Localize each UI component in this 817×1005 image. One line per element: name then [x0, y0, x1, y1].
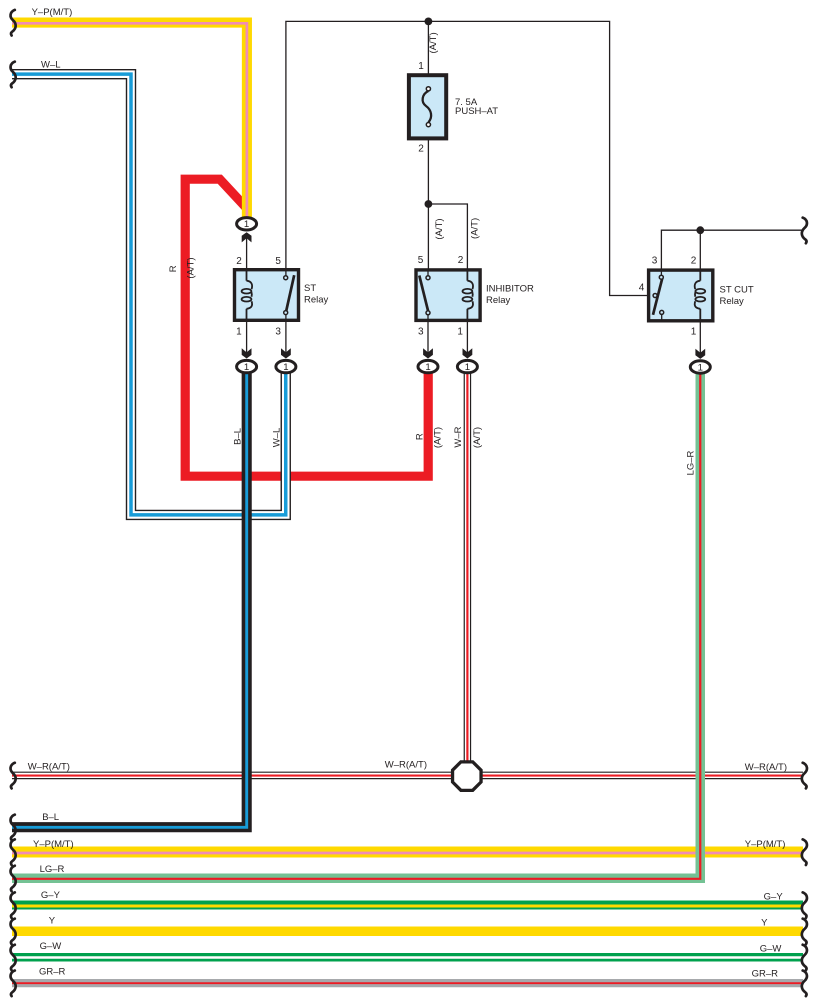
wire: branch to inhibitor pin2: [428, 204, 467, 282]
svg-text:2: 2: [236, 256, 242, 267]
break symbol GR-R bus right: [802, 971, 807, 997]
svg-text:1: 1: [691, 327, 697, 338]
coil: [463, 271, 473, 321]
svg-text:B–L: B–L: [232, 428, 243, 445]
break symbol Y-P(M/T) bus left: [11, 839, 16, 865]
rotated wire labels: [168, 32, 697, 475]
svg-text:W–R(A/T): W–R(A/T): [745, 762, 787, 773]
svg-text:W–L: W–L: [271, 428, 282, 448]
svg-text:(A/T): (A/T): [472, 427, 483, 448]
svg-text:Y: Y: [49, 915, 56, 926]
switch: [284, 271, 295, 321]
wire: ST relay pin2 from connector to coil: [246, 238, 248, 282]
wire: fuse pin2 down to inhibitor pin5: [427, 125, 429, 276]
junction dot at fuse feed on top rail: [425, 18, 433, 26]
svg-text:ST: ST: [304, 283, 316, 294]
svg-text:1: 1: [244, 219, 249, 230]
svg-text:INHIBITOR: INHIBITOR: [486, 284, 534, 295]
break symbol W-R(A/T) bus left: [11, 763, 16, 789]
svg-text:LG–R: LG–R: [686, 450, 697, 475]
break symbol W-R(A/T) bus right: [802, 763, 807, 789]
svg-text:PUSH–AT: PUSH–AT: [455, 106, 498, 117]
break symbol Y bus right: [802, 919, 807, 945]
switch: [653, 271, 664, 321]
wire: ST relay pin1 to connector: [246, 308, 248, 355]
wire: ST relay pin3 to connector: [285, 315, 287, 355]
connector C below ST relay pin3: [276, 348, 296, 373]
svg-text:Relay: Relay: [486, 295, 511, 306]
svg-text:B–L: B–L: [42, 812, 59, 823]
svg-text:1: 1: [283, 362, 288, 373]
svg-text:W–R: W–R: [453, 426, 464, 447]
svg-text:W–R(A/T): W–R(A/T): [28, 761, 70, 772]
pin numbers: [236, 61, 697, 338]
svg-text:3: 3: [418, 327, 424, 338]
svg-text:2: 2: [691, 256, 697, 267]
svg-text:3: 3: [275, 327, 281, 338]
break symbol G-Y bus left: [11, 892, 16, 918]
wire: inhibitor pin3 to connector: [427, 315, 429, 355]
connector D below inhibitor pin3: [418, 348, 438, 373]
svg-text:ST CUT: ST CUT: [720, 285, 754, 296]
svg-text:2: 2: [418, 144, 424, 155]
break symbol W-L left: [11, 62, 16, 88]
svg-text:GR–R: GR–R: [39, 966, 66, 977]
coil: [242, 271, 252, 321]
svg-text:Y–P(M/T): Y–P(M/T): [745, 839, 786, 850]
wire: inhibitor pin1 to connector: [466, 309, 468, 355]
svg-text:Relay: Relay: [304, 295, 329, 306]
wire: fuse pin1 from top rail: [427, 21, 429, 88]
svg-text:5: 5: [275, 256, 281, 267]
svg-text:Y–P(M/T): Y–P(M/T): [32, 7, 73, 18]
break symbol GR-R bus left: [11, 971, 16, 997]
connector F below ST CUT pin1: [690, 349, 710, 374]
svg-text:(A/T): (A/T): [433, 427, 444, 448]
break symbol Y bus left: [11, 919, 16, 945]
break symbol G-W bus left: [11, 945, 16, 971]
svg-text:G–Y: G–Y: [764, 892, 784, 903]
svg-text:(A/T): (A/T): [185, 257, 196, 278]
svg-text:3: 3: [652, 256, 658, 267]
svg-text:5: 5: [418, 255, 424, 266]
svg-text:1: 1: [418, 61, 424, 72]
break symbol Y-P(M/T) bus right: [802, 839, 807, 865]
svg-text:W–L: W–L: [41, 60, 61, 71]
svg-text:Relay: Relay: [720, 296, 745, 307]
wire: ST CUT pin2: [699, 230, 701, 281]
svg-text:R: R: [168, 265, 179, 272]
connector A above ST relay pin2: [237, 218, 257, 243]
svg-text:(A/T): (A/T): [428, 32, 439, 53]
svg-text:1: 1: [244, 362, 249, 373]
junction dot ST CUT pin 2 wire: [696, 226, 704, 234]
break symbol G-Y bus right: [802, 892, 807, 918]
svg-text:1: 1: [425, 362, 430, 373]
connector E below inhibitor pin1: [457, 348, 477, 373]
svg-text:G–W: G–W: [40, 941, 62, 952]
svg-text:Y–P(M/T): Y–P(M/T): [33, 839, 74, 850]
svg-text:1: 1: [465, 362, 470, 373]
svg-text:1: 1: [457, 327, 463, 338]
svg-text:Y: Y: [761, 917, 768, 928]
break symbol ST CUT wire right: [802, 218, 807, 244]
break symbol Y-P(M/T) top left: [11, 10, 16, 36]
svg-text:2: 2: [458, 255, 464, 266]
coil: [695, 271, 705, 321]
junction dot below fuse pin 2: [425, 200, 433, 208]
wire: ST relay pin5 up, top horizontal rail, down to ST CUT pin4: [286, 21, 652, 295]
switch: [419, 271, 430, 321]
svg-text:G–W: G–W: [760, 944, 782, 955]
svg-text:G–Y: G–Y: [41, 890, 61, 901]
break symbol LG-R bus left: [11, 866, 16, 892]
svg-text:GR–R: GR–R: [752, 969, 779, 980]
break symbol G-W bus right: [802, 945, 807, 971]
svg-text:1: 1: [698, 362, 703, 373]
break symbol B-L bus left: [11, 815, 16, 841]
svg-text:LG–R: LG–R: [40, 864, 65, 875]
svg-text:R: R: [414, 433, 425, 440]
wire: ST CUT pin3 up and horizontal to right break: [661, 230, 802, 277]
svg-text:(A/T): (A/T): [469, 218, 480, 239]
svg-text:4: 4: [639, 283, 645, 294]
svg-text:(A/T): (A/T): [434, 218, 445, 239]
connector B below ST relay pin1: [237, 348, 257, 373]
wire: ST CUT pin1 to connector: [699, 309, 701, 356]
svg-text:1: 1: [236, 327, 242, 338]
svg-text:W–R(A/T): W–R(A/T): [385, 760, 427, 771]
